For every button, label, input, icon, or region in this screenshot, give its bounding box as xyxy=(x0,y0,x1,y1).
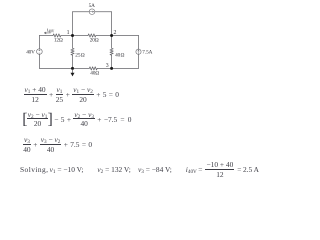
wire top branch upper left xyxy=(73,11,90,13)
solution v1 xyxy=(50,163,84,178)
resistor R 25ohm vertical: wire from node1 xyxy=(72,36,74,49)
wire right branch down to source xyxy=(138,36,140,50)
resistor R 12ohm zigzag xyxy=(53,34,61,37)
solution v3 xyxy=(138,163,172,178)
wire 40ohm vertical to node3 xyxy=(111,55,113,68)
resistor R 20ohm zigzag xyxy=(88,34,96,37)
svg-text:25 Ω: 25 Ω xyxy=(75,52,84,58)
40V polarity plus xyxy=(39,50,40,51)
svg-text:i40V: i40V xyxy=(47,29,55,34)
wire 25ohm to ground node xyxy=(72,55,74,68)
wire top-left horizontal (40V top to 12ohm) xyxy=(39,35,53,37)
wire 12ohm to node 1 xyxy=(61,35,73,37)
svg-text:40Ω: 40Ω xyxy=(90,71,99,77)
resistor R 40ohm vertical: wire from node2 xyxy=(111,36,113,49)
equation 3: node 3 KCL xyxy=(23,137,92,152)
svg-text:40V: 40V xyxy=(26,49,35,55)
wire 40ohm to node3 xyxy=(97,67,112,69)
wire node1 to 20ohm xyxy=(73,35,89,37)
wire ground to 40ohm xyxy=(73,67,90,69)
svg-text:5A: 5A xyxy=(89,3,95,9)
voltage source 40V vertical wire top xyxy=(38,36,40,49)
svg-text:40 Ω: 40 Ω xyxy=(115,53,124,59)
equation 2: node 2 KCL xyxy=(23,112,131,127)
svg-text:7.5A: 7.5A xyxy=(142,50,152,56)
wire right branch below source xyxy=(138,54,140,68)
current arrow i40V xyxy=(44,32,50,34)
resistor R 40ohm vertical zigzag xyxy=(110,48,113,55)
svg-text:2: 2 xyxy=(114,30,117,36)
solution v2 xyxy=(97,163,130,178)
svg-text:12Ω: 12Ω xyxy=(54,38,63,44)
ground arrow xyxy=(72,70,74,73)
resistor R 40ohm bottom zigzag xyxy=(89,67,97,70)
current source 7.5A circle xyxy=(136,49,141,54)
svg-text:20Ω: 20Ω xyxy=(90,38,99,44)
resistor R 25ohm zigzag xyxy=(71,48,74,55)
svg-text:3: 3 xyxy=(106,63,109,69)
current source 5A circle xyxy=(89,9,95,15)
wire node2 to right branch xyxy=(112,35,139,37)
ground node dot xyxy=(71,67,74,70)
equation 1: node 1 KCL xyxy=(24,88,119,103)
svg-text:1: 1 xyxy=(67,30,70,36)
node 1 dot xyxy=(71,34,74,37)
solution line: Solving clause xyxy=(20,163,48,178)
voltage source 40V vertical wire bottom xyxy=(38,54,40,68)
7.5A source arrow up xyxy=(138,50,139,54)
voltage source 40V circle xyxy=(37,49,43,55)
wire 20ohm to node2 xyxy=(96,35,112,37)
wire bottom left xyxy=(39,67,72,69)
5A source arrow xyxy=(90,11,94,12)
wire top branch right vertical xyxy=(111,12,113,36)
node 3 dot xyxy=(110,67,113,70)
40V polarity minus xyxy=(39,52,40,54)
wire top branch upper right xyxy=(95,11,112,13)
circuit schematic xyxy=(0,0,274,86)
wire node3 to right branch bottom xyxy=(112,67,139,69)
wire top branch left vertical xyxy=(72,12,74,36)
node 2 dot xyxy=(110,34,113,37)
solution i40V fraction xyxy=(186,163,259,178)
